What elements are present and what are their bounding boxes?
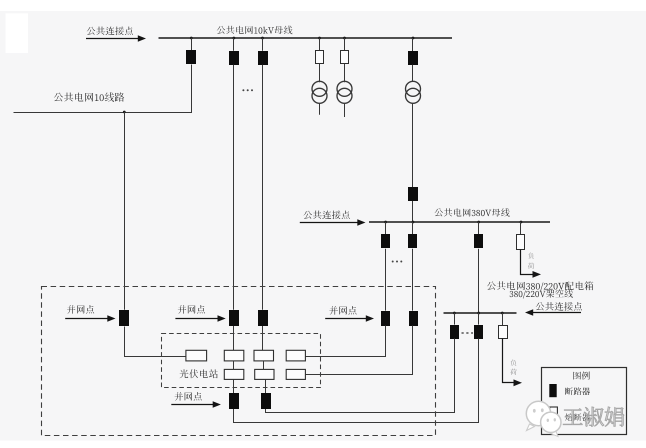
breaker QF4 (transformer primary) [408,51,418,65]
breaker 并网点2a [229,310,239,326]
svg-text:并网点: 并网点 [329,305,358,317]
breaker QF2 (10kV feeder) [229,51,239,65]
wire: H down-left-up to PV breaker 4b [266,339,455,413]
wire: E1 to E2 [412,249,414,311]
node: 10kV bus / feeder QF1 [190,37,193,40]
fuse/switch symbol G [517,235,525,250]
PV inverter row1 col1 [186,350,207,361]
wire: QF2 long drop to PV breaker [233,65,235,310]
svg-text:并网点: 并网点 [177,304,206,316]
svg-text:公共电网10kV母线: 公共电网10kV母线 [216,26,293,37]
ellipsis between 10kV feeders [242,89,244,91]
wire: bus to QF3 [262,38,264,51]
breaker QF1 (10kV feeder) [186,50,196,64]
breaker 并网点4a [229,393,239,409]
svg-text:荷: 荷 [510,367,517,376]
wire: I down-left-up to PV breaker 4a [234,339,479,423]
node: 10kV bus / feeder 2 [233,37,236,40]
svg-text:王淑娟: 王淑娟 [562,404,625,430]
white patch top-left [6,13,29,53]
wire: T2 tail [344,103,346,117]
svg-text:并网点: 并网点 [174,391,203,403]
wire: D1 to D2 [385,249,387,311]
wire: D2 to PV inverter row1 col4 [306,326,386,357]
watermark: speech-bubble icons [526,401,561,436]
wire: bus to breaker QF4 [412,38,414,51]
breaker E1 (380V feeder) [408,234,417,248]
wire: breaker to PV inverter 1 [125,327,186,357]
wire: bus to fuse 2 [344,38,346,51]
inner dashed box: 光伏电站 [162,334,321,388]
svg-text:光伏电站: 光伏电站 [179,369,218,381]
node: 380V bus / drop E [412,221,415,224]
PCC annotation arrow (380V bus) [300,222,359,224]
svg-text:公共连接点: 公共连接点 [535,301,583,313]
wire: QF5 to 380V bus [412,201,414,222]
PV inverter row1 col4 [286,350,305,361]
wire: QF3 long drop to PV breaker [262,65,264,310]
wire: bus to fuse G [520,222,522,235]
svg-text:断路器: 断路器 [565,386,591,397]
380V bus: 公共电网380V母线 [369,221,550,223]
node: 10kV bus / transformer stub 2 [343,37,346,40]
wire: T3 to breaker QF5 [412,103,414,187]
svg-text:图例: 图例 [572,371,590,382]
fuse/switch symbol J [499,326,508,339]
svg-text:负: 负 [528,251,535,260]
node: 380/220V line / breaker I [477,312,480,315]
wire: QF4 to transformer T3 [412,65,414,82]
transformer T2 (10kV) [337,81,352,96]
wire: QF1 down and left to 10kV line [14,65,192,113]
breaker 并网点4b [261,393,271,409]
wire: row2 col3 to breaker 4b [265,379,267,393]
transformer T3 (10kV/380V) [406,81,421,96]
node: 380/220V line / load stub J [501,312,504,315]
PV inverter row2 col3 [255,369,274,379]
node: 380V bus / drop F [477,221,480,224]
node: 380V bus / load stub G [520,221,523,224]
svg-text:荷: 荷 [528,261,535,270]
outer dashed boundary (PV plant site) [42,287,436,436]
fuse/switch symbol (stub 1) [316,51,324,64]
node: 10kV bus / transformer stub 1 [318,37,321,40]
dotted ellipsis between H and I [462,332,474,334]
svg-text:380/220V架空线: 380/220V架空线 [509,289,573,300]
wire: breaker to PV inverter row1 col3 [262,326,264,350]
svg-text:公共连接点: 公共连接点 [303,209,351,221]
wire: junction down to PV plant breaker [124,112,126,310]
legend box 图例 [542,368,627,435]
wire: bus to QF1 [191,38,193,50]
node: junction on 10kV line [123,111,126,114]
wire: E2 to PV inverter row2 col4 [306,326,413,375]
ellipsis between 380V feeders [392,261,394,263]
fuse/switch symbol (stub 2) [341,51,349,64]
svg-text:公共电网380V母线: 公共电网380V母线 [434,208,511,219]
node: 10kV bus / distribution transformer [412,37,415,40]
wire: bus to breaker F [478,222,480,235]
wire: T1 tail [319,103,321,114]
wire: row1-row2 link col2 [233,361,235,370]
svg-text:负: 负 [510,358,517,367]
node: 380/220V line / breaker H [453,312,456,315]
PCC annotation arrow (380/220V) [532,312,582,314]
PV inverter row1 col3 [254,350,274,361]
wire: bus to breaker D1 [385,222,387,235]
PV inverter row2 col2 [224,369,244,379]
wire: bus to fuse 1 [319,38,321,51]
breaker F (to 380/220V box) [474,234,483,248]
wire: row1-row2 link col3 [263,361,265,370]
breaker QF5 (transformer secondary) [408,187,418,201]
wire: row2 col2 to breaker 4a [233,379,235,393]
wire+arrow: G to loads [521,250,533,275]
breaker E2 并网点3b [409,311,418,326]
wire: bus to breaker E1 [412,222,414,235]
svg-text:公共电网10线路: 公共电网10线路 [53,92,124,104]
legend symbol: fuse/switch [550,407,558,420]
breaker 并网点1 [119,310,129,326]
PV inverter row2 col4 [286,369,305,379]
breaker D1 (380V feeder) [381,234,390,248]
breaker D2 并网点3a [381,311,390,326]
node: 380V bus / drop D [384,221,387,224]
legend symbol: breaker [549,384,556,397]
svg-text:并网点: 并网点 [66,304,95,316]
svg-text:公共连接点: 公共连接点 [86,26,134,38]
breaker QF3 (10kV feeder) [258,51,268,65]
wire: F down to 380/220V line [478,249,480,313]
wire: fuse to transformer 1 [319,64,321,83]
wire+arrow: J to loads [503,339,515,383]
wire: breaker to PV inverter row1 col2 [233,326,235,350]
wire: line to fuse J [502,313,504,326]
wire: fuse to transformer 2 [344,64,346,83]
breaker I [478,313,480,325]
breaker H [454,313,456,325]
10kV bus: 公共电网10kV母线 [159,37,453,39]
node: 10kV bus / feeder 3 [261,37,264,40]
380/220V line (公共电网380/220V配电箱) [444,312,517,314]
transformer T1 (10kV) [312,81,327,96]
PCC annotation arrow (10kV bus) [86,38,140,40]
breaker 并网点2b [258,310,268,326]
PV inverter row1 col2 [224,350,244,361]
wire: bus to QF2 [233,38,235,51]
